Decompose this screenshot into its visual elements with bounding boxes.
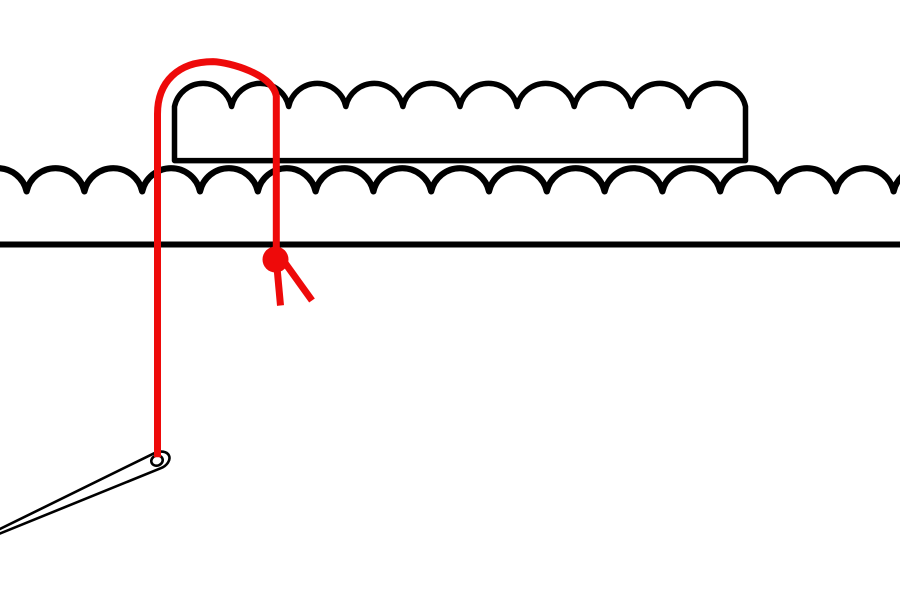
needle body [0,452,169,555]
needle eye [150,454,164,467]
thread knot (red dot) [263,247,289,273]
lower fabric scalloped edge row [0,168,900,191]
fabric fold line (full-width horizontal) [0,242,900,248]
thread tail diagonal [284,262,312,301]
red thread loop arch over fabric [158,62,277,458]
upper fabric piece with scalloped top edge [175,83,746,160]
thread tail short (near vertical) [277,262,281,306]
